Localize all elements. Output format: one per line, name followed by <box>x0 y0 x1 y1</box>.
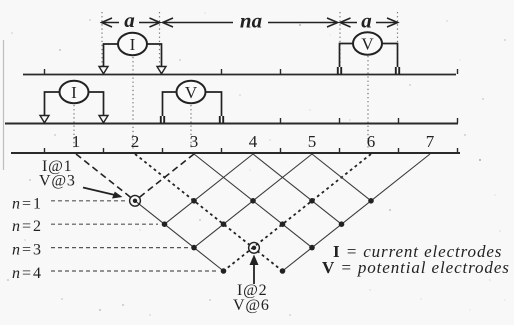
dotted projection line at x=191 (under meter V lower) <box>190 105 192 148</box>
dotted projection line at x=102 <box>101 12 103 66</box>
svg-text:I: I <box>71 83 77 102</box>
svg-text:V = potential electrodes: V = potential electrodes <box>322 258 510 277</box>
lattice dots row n=3 <box>191 245 315 251</box>
scan edge artifact line <box>3 40 5 170</box>
dotted projection line at x=340 <box>339 12 341 66</box>
dotted projection line at x=368 (under meter V upper) <box>367 56 369 150</box>
diagonal dashed from station 3 down-left (V@3) <box>135 154 194 201</box>
dimension line segment a (left) <box>102 18 161 27</box>
wire left of meter V lower <box>163 92 177 116</box>
dotted projection line at x=74 (under meter I lower) <box>73 105 75 148</box>
dotted projection line at x=159.5 <box>159 12 161 66</box>
current electrode arrow at 103.5 on line 1 <box>99 67 108 74</box>
n=3 dashed level line <box>51 247 189 249</box>
ticks on line 1 <box>45 69 458 74</box>
lattice dots row n=4 <box>221 268 286 274</box>
dotted projection line at x=133 (under meter I upper) <box>132 57 134 150</box>
wire left of meter I upper <box>104 44 119 67</box>
meter I lower (circle with I) <box>60 81 89 103</box>
svg-text:5: 5 <box>308 132 317 151</box>
svg-text:V@3: V@3 <box>39 173 76 190</box>
current electrode arrow at 103.5 on line 2 <box>99 116 108 123</box>
ground line 1 (top electrode line) <box>23 74 456 76</box>
svg-text:V@6: V@6 <box>233 297 270 314</box>
svg-text:V: V <box>185 83 198 102</box>
scale line (line 3) <box>11 152 460 154</box>
meter V lower (circle with V) <box>177 81 206 103</box>
svg-text:n=1: n=1 <box>12 196 43 213</box>
n=2 dashed level line <box>51 223 158 225</box>
current electrode arrow at 44.5 on line 2 <box>40 116 49 123</box>
svg-text:a: a <box>361 9 372 33</box>
meter I upper (circle with I) <box>118 33 147 55</box>
diagonal dashed from station 1 down-right (I@1) <box>76 154 135 201</box>
svg-text:n=2: n=2 <box>12 218 43 235</box>
diagonal solid from station 5 down-right <box>312 154 371 201</box>
svg-text:a: a <box>124 8 135 32</box>
svg-text:2: 2 <box>131 132 140 151</box>
dotted projection line at x=397.5 <box>397 12 399 66</box>
svg-text:I: I <box>130 35 136 54</box>
svg-text:1: 1 <box>72 132 81 151</box>
node B circled point (plot of I@2 V@6) <box>249 242 260 253</box>
svg-text:na: na <box>240 9 262 33</box>
potential electrode at 339.5 on line 1 <box>338 67 341 74</box>
node A circled point (plot of I@1 V@3) <box>130 195 141 206</box>
meter V upper (circle with V) <box>353 32 382 54</box>
wire right of meter V upper <box>382 44 398 68</box>
wire right of meter V lower <box>206 92 222 116</box>
diagonal solid from station 5 down-left <box>194 154 312 248</box>
current electrode arrow at 161.5 on line 1 <box>157 67 166 74</box>
n=1 dashed level line <box>51 200 127 202</box>
wire left of meter I lower <box>45 92 60 116</box>
dimension line segment na <box>163 18 338 27</box>
diagonal solid from station 4 down-left <box>165 154 254 224</box>
svg-text:V: V <box>361 35 374 54</box>
diagonal solid from station 3 down-right <box>194 154 312 248</box>
n=4 dashed level line <box>51 270 218 272</box>
svg-text:3: 3 <box>190 132 199 151</box>
svg-text:n=4: n=4 <box>12 265 43 282</box>
lattice dots row n=2 <box>162 221 345 227</box>
ground line 2 (second electrode line) <box>5 123 458 125</box>
ticks on scale line <box>45 148 458 153</box>
diagonal solid from station 7 down-left <box>283 154 431 271</box>
ticks on line 2 <box>281 118 458 123</box>
diagonal solid continuation below node A <box>135 201 224 271</box>
diagonal solid from station 4 down-right <box>253 154 342 224</box>
diagonal dotted from station 6 down-left (V@6) <box>224 154 372 271</box>
potential electrode at 397.5 on line 1 <box>396 67 399 74</box>
potential electrode at 221.5 on line 2 <box>220 116 223 123</box>
wire right of meter I lower <box>89 92 104 116</box>
annotation arrow to node B <box>250 255 259 285</box>
potential electrode at 162.5 on line 2 <box>161 116 164 123</box>
diagonal dotted from station 2 down-right (I@2) <box>135 154 283 271</box>
annotation arrow to node A <box>83 188 123 199</box>
svg-text:4: 4 <box>249 132 258 151</box>
wire right of meter I upper <box>147 44 162 67</box>
svg-text:n=3: n=3 <box>12 242 43 259</box>
wire left of meter V upper <box>340 44 354 68</box>
svg-text:6: 6 <box>367 132 376 151</box>
lattice dots row n=1 <box>191 198 374 204</box>
svg-text:7: 7 <box>426 132 435 151</box>
dimension line segment a (right) <box>340 18 398 27</box>
